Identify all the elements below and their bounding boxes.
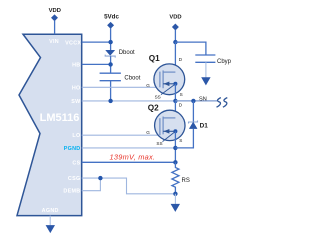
svg-text:SS: SS: [156, 141, 162, 146]
svg-text:VDD: VDD: [49, 8, 61, 14]
svg-text:G: G: [146, 130, 150, 135]
diode D1 schottky: [189, 121, 198, 129]
wire Cboot bottom to SW: [110, 81, 112, 101]
svg-text:Cbyp: Cbyp: [217, 59, 232, 65]
pin label HO: [72, 85, 81, 91]
node VDD right label: [169, 15, 181, 21]
wire Q2 source down: [174, 131, 176, 162]
label 139mV max: [110, 152, 156, 161]
node 5Vdc diamond: [108, 22, 114, 28]
wire CS: [82, 161, 176, 163]
transistor Q1: [154, 64, 185, 95]
pin label VCCX: [65, 41, 81, 47]
pin label LO: [72, 133, 80, 139]
pin label Q2 S: [179, 138, 182, 143]
wire Cbyp to ground: [205, 62, 207, 77]
junction CS node: [173, 160, 177, 164]
junction Q2 source / PGND / D1: [173, 146, 177, 150]
node VDD right diamond: [173, 24, 179, 30]
pin label Q1 D: [179, 57, 183, 62]
junction HB/Cboot: [108, 62, 112, 66]
svg-text:HB: HB: [72, 62, 80, 68]
junction VCCX/5Vdc: [108, 40, 112, 44]
junction RS bottom / CSG: [173, 192, 177, 196]
svg-text:SS: SS: [155, 94, 161, 99]
wire D1 anode to source node: [175, 129, 193, 148]
wire HB: [82, 63, 111, 65]
wire 5Vdc to Dboot anode: [110, 28, 112, 50]
junction SW node: [173, 99, 177, 103]
svg-text:CS: CS: [72, 160, 80, 166]
svg-text:SW: SW: [71, 99, 81, 105]
svg-text:VDD: VDD: [169, 15, 181, 21]
ground AGND: [46, 225, 55, 233]
wire Cbyp branch: [175, 42, 206, 55]
svg-text:Q1: Q1: [149, 54, 160, 63]
wire VCCX: [82, 41, 111, 43]
diode Dboot schottky: [105, 50, 115, 57]
junction CSG/DEMB: [98, 176, 102, 180]
svg-text:139mV, max.: 139mV, max.: [110, 152, 156, 161]
svg-text:AGND: AGND: [42, 208, 59, 214]
svg-text:D: D: [179, 57, 183, 62]
label Q1: [149, 54, 160, 63]
wire PGND to Q2 source: [82, 147, 176, 149]
resistor RS: [172, 162, 179, 194]
capacitor Cboot: [100, 73, 121, 81]
pin label SW: [71, 99, 81, 105]
svg-text:VIN: VIN: [49, 39, 59, 45]
label D1: [200, 123, 209, 130]
svg-text:D: D: [179, 103, 183, 108]
svg-text:S: S: [179, 138, 182, 143]
wire D1 branch top: [192, 101, 194, 122]
svg-text:Dboot: Dboot: [119, 50, 135, 56]
label Cboot: [124, 76, 140, 82]
wire VDD right drop: [174, 30, 176, 42]
label Q2: [148, 103, 159, 112]
wire Q1 source to SW: [174, 84, 176, 101]
pin label CSG: [68, 176, 81, 182]
wire SW to SN: [175, 100, 217, 102]
pin label Q1 SS with leader: [155, 85, 175, 100]
svg-text:LM5116: LM5116: [40, 112, 80, 124]
svg-text:S: S: [180, 92, 183, 97]
svg-text:CSG: CSG: [68, 176, 81, 182]
svg-text:LO: LO: [72, 133, 80, 139]
wire Dboot cathode to HB node: [110, 56, 112, 73]
label SN: [199, 96, 207, 102]
junction SW/Cboot: [108, 99, 112, 103]
svg-text:RS: RS: [182, 178, 190, 184]
junction VDD/Cbyp: [173, 40, 177, 44]
junction SN/D1: [191, 99, 195, 103]
ground Cbyp: [201, 77, 210, 85]
wire DEMB route: [82, 178, 101, 191]
svg-text:PGND: PGND: [64, 146, 81, 152]
svg-text:VCCX: VCCX: [65, 41, 81, 47]
pin label VIN: [49, 39, 59, 45]
wire VDD to VIN: [54, 21, 56, 35]
svg-text:HO: HO: [72, 85, 81, 91]
node VDD left diamond: [52, 15, 58, 21]
pin label Q2 D: [179, 103, 183, 108]
node 5Vdc label: [104, 13, 119, 20]
pin label Q1 G: [146, 83, 150, 88]
pin label Q2 G: [146, 130, 150, 135]
pin label PGND: [64, 146, 81, 152]
svg-text:SN: SN: [199, 96, 207, 102]
ground RS: [171, 204, 180, 212]
svg-text:G: G: [146, 83, 150, 88]
wire LO to Q2 gate: [82, 134, 160, 136]
wire SW rail: [82, 100, 176, 102]
squiggle line-break SN: [217, 98, 228, 108]
svg-text:Cboot: Cboot: [124, 76, 140, 82]
node VDD left label: [49, 8, 61, 14]
wire CSG route: [82, 178, 176, 194]
pin label CS: [72, 160, 80, 166]
label Cbyp: [217, 59, 232, 65]
pin label Q1 S: [180, 92, 183, 97]
pin label AGND: [42, 208, 59, 214]
chip name LM5116: [40, 112, 80, 124]
wire Q2 drain to SW: [174, 101, 176, 118]
pin label Q2 SS with leader: [156, 132, 174, 146]
svg-text:Q2: Q2: [148, 103, 159, 112]
capacitor Cbyp: [195, 55, 215, 62]
svg-text:D1: D1: [200, 123, 209, 130]
pin label DEMB: [63, 189, 80, 195]
svg-text:5Vdc: 5Vdc: [104, 13, 119, 20]
wire AGND to ground: [49, 216, 51, 226]
pin label HB: [72, 62, 80, 68]
label RS: [182, 178, 190, 184]
wire VDD to Q1 drain: [174, 42, 176, 72]
label Dboot: [119, 50, 135, 56]
transistor Q2: [155, 110, 185, 140]
wire RS to ground: [174, 194, 176, 204]
op-amp U1 LM5116 controller body: [17, 34, 82, 215]
wire HO to Q1 gate: [82, 86, 160, 88]
svg-text:DEMB: DEMB: [63, 189, 80, 195]
